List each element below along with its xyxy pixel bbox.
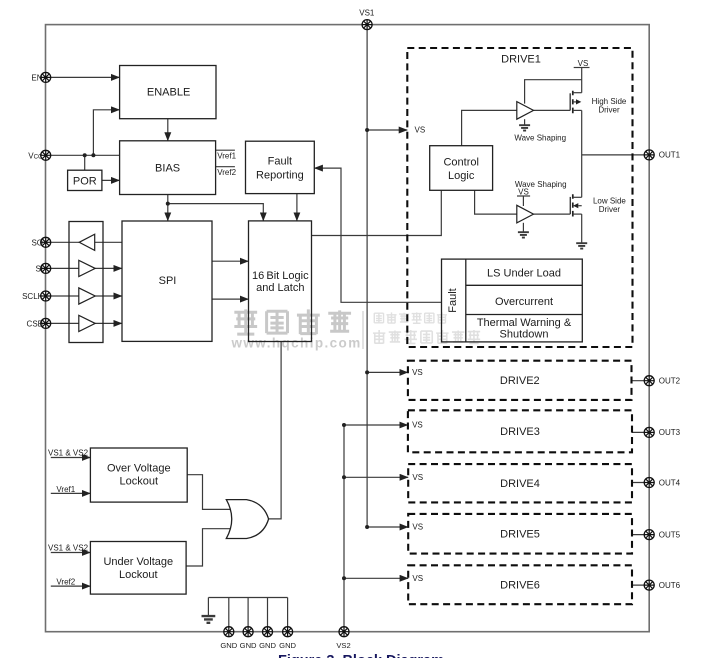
svg-text:Thermal Warning &: Thermal Warning & bbox=[477, 317, 572, 329]
svg-text:VS1 & VS2: VS1 & VS2 bbox=[48, 448, 89, 457]
svg-text:GND: GND bbox=[240, 641, 257, 650]
svg-text:Wave Shaping: Wave Shaping bbox=[514, 133, 566, 142]
svg-text:VS2: VS2 bbox=[336, 641, 350, 650]
svg-text:SPI: SPI bbox=[159, 275, 177, 287]
svg-text:LS Under Load: LS Under Load bbox=[487, 268, 561, 280]
svg-text:Lockout: Lockout bbox=[119, 569, 158, 581]
svg-text:Fault: Fault bbox=[268, 156, 292, 168]
svg-text:OUT6: OUT6 bbox=[659, 581, 681, 590]
svg-text:DRIVE5: DRIVE5 bbox=[500, 529, 540, 541]
svg-text:Lockout: Lockout bbox=[120, 476, 159, 488]
svg-text:VS1 & VS2: VS1 & VS2 bbox=[48, 543, 89, 552]
svg-text:Logic: Logic bbox=[448, 170, 475, 182]
svg-text:GND: GND bbox=[220, 641, 237, 650]
svg-text:OUT1: OUT1 bbox=[659, 151, 681, 160]
svg-text:www.hqchip.com: www.hqchip.com bbox=[231, 335, 362, 350]
svg-text:VS: VS bbox=[578, 59, 589, 68]
svg-text:VS: VS bbox=[412, 473, 423, 482]
svg-text:ENABLE: ENABLE bbox=[147, 86, 190, 98]
svg-text:Vref2: Vref2 bbox=[217, 168, 236, 177]
svg-text:DRIVE2: DRIVE2 bbox=[500, 375, 540, 387]
svg-text:Over Voltage: Over Voltage bbox=[107, 463, 171, 475]
svg-text:SCLK: SCLK bbox=[22, 292, 44, 301]
svg-text:BIAS: BIAS bbox=[155, 163, 180, 175]
svg-text:Fault: Fault bbox=[447, 288, 459, 312]
svg-text:OUT4: OUT4 bbox=[659, 478, 681, 487]
svg-text:Reporting: Reporting bbox=[256, 170, 304, 182]
svg-text:VS: VS bbox=[412, 523, 423, 532]
svg-text:16 Bit Logic: 16 Bit Logic bbox=[252, 270, 309, 282]
svg-text:CSB: CSB bbox=[27, 319, 43, 328]
svg-text:VCC: VCC bbox=[28, 151, 43, 160]
svg-text:Driver: Driver bbox=[598, 106, 620, 115]
svg-text:SI: SI bbox=[35, 264, 43, 273]
svg-text:Overcurrent: Overcurrent bbox=[495, 296, 553, 308]
svg-text:Control: Control bbox=[443, 157, 478, 169]
svg-text:VS1: VS1 bbox=[359, 8, 375, 17]
svg-text:Vref2: Vref2 bbox=[56, 577, 75, 586]
svg-text:GND: GND bbox=[279, 641, 296, 650]
svg-text:Vref1: Vref1 bbox=[56, 485, 75, 494]
svg-text:OUT2: OUT2 bbox=[659, 377, 681, 386]
svg-text:POR: POR bbox=[73, 175, 97, 187]
svg-text:OUT3: OUT3 bbox=[659, 428, 681, 437]
svg-text:DRIVE6: DRIVE6 bbox=[500, 580, 540, 592]
svg-text:DRIVE4: DRIVE4 bbox=[500, 478, 540, 490]
svg-text:GND: GND bbox=[259, 641, 276, 650]
svg-text:DRIVE1: DRIVE1 bbox=[501, 54, 541, 66]
svg-text:SO: SO bbox=[31, 238, 43, 247]
svg-text:Under Voltage: Under Voltage bbox=[103, 556, 173, 568]
svg-text:VS: VS bbox=[415, 126, 426, 135]
svg-text:VS: VS bbox=[412, 368, 423, 377]
svg-text:Shutdown: Shutdown bbox=[500, 329, 549, 341]
svg-text:Vref1: Vref1 bbox=[217, 151, 236, 160]
svg-text:OUT5: OUT5 bbox=[659, 530, 681, 539]
svg-text:DRIVE3: DRIVE3 bbox=[500, 426, 540, 438]
svg-text:Driver: Driver bbox=[599, 205, 621, 214]
svg-text:VS: VS bbox=[412, 574, 423, 583]
svg-text:EN: EN bbox=[31, 73, 42, 82]
svg-text:Wave Shaping: Wave Shaping bbox=[515, 180, 567, 189]
svg-text:VS: VS bbox=[412, 421, 423, 430]
svg-text:and Latch: and Latch bbox=[256, 282, 304, 294]
svg-text:Figure 3. Block Diagram: Figure 3. Block Diagram bbox=[278, 653, 444, 658]
